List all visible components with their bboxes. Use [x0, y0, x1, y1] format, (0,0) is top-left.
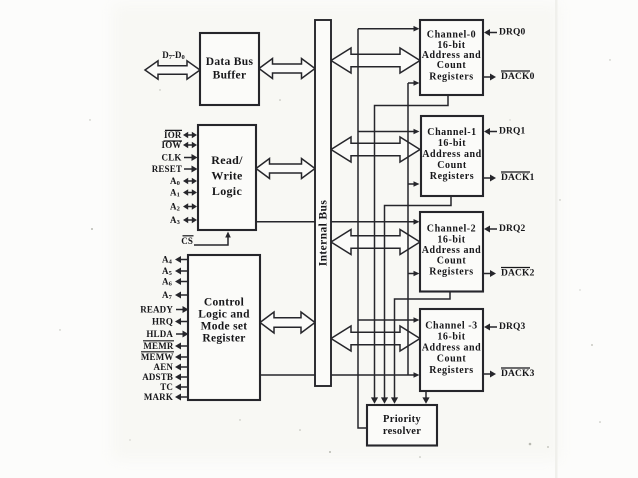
svg-text:DRQ1: DRQ1 [499, 127, 526, 137]
svg-text:resolver: resolver [383, 426, 421, 437]
block: Channel-1 registers [421, 116, 483, 196]
svg-text:Data Bus: Data Bus [206, 56, 254, 68]
svg-text:CS: CS [181, 236, 193, 246]
pin arrow READY [176, 309, 186, 311]
svg-text:MEMR: MEMR [143, 341, 173, 351]
wire: Channel-1 bottom to Priority resolver [385, 196, 452, 399]
pin arrow HLDA [176, 333, 186, 335]
pin arrow A0 [186, 180, 194, 182]
svg-text:Channel-1: Channel-1 [427, 127, 476, 138]
svg-text:DRQ2: DRQ2 [499, 224, 526, 234]
svg-text:DACK0: DACK0 [501, 72, 535, 82]
wire: CS to Read/Write Logic [194, 236, 228, 245]
svg-text:IOR: IOR [164, 130, 182, 140]
svg-text:RESET: RESET [152, 164, 182, 174]
svg-text:CLK: CLK [162, 153, 182, 163]
bus arrow: Data Bus Buffer to Internal Bus [259, 59, 315, 79]
wire: branch to Channel-1 bottom input [408, 183, 416, 185]
pin DRQ3 [487, 326, 497, 328]
wire: Channel-0 bottom to Priority resolver [375, 95, 449, 399]
pin arrow CLK [184, 157, 195, 159]
svg-text:DACK3: DACK3 [501, 369, 535, 379]
block: Data Bus Buffer [200, 33, 259, 105]
pin arrow HRQ [178, 321, 188, 323]
pin DACK0 (active low) [484, 76, 493, 78]
svg-text:Count: Count [437, 256, 467, 267]
bus arrow: Internal Bus to Channel-0 [331, 48, 420, 73]
pin arrow A5 [178, 270, 188, 272]
block: Channel-0 registers [420, 20, 483, 95]
svg-text:16-bit: 16-bit [437, 332, 465, 343]
svg-text:Channel -3: Channel -3 [425, 321, 477, 332]
svg-text:Priority: Priority [383, 414, 421, 425]
svg-text:Registers: Registers [429, 72, 473, 83]
pin arrow ADSTB [178, 376, 188, 378]
svg-text:HRQ: HRQ [152, 317, 173, 327]
svg-text:D7-D0: D7-D0 [162, 50, 185, 61]
svg-text:HLDA: HLDA [146, 329, 173, 339]
svg-text:Count: Count [437, 354, 467, 365]
pin DACK1 (active low) [484, 177, 493, 179]
svg-text:READY: READY [140, 305, 173, 315]
wire: Channel-3 bottom to Priority resolver [425, 391, 427, 399]
svg-text:Register: Register [202, 333, 245, 345]
pin arrow IOW [186, 144, 194, 146]
svg-text:MEMW: MEMW [141, 352, 174, 362]
svg-text:DACK2: DACK2 [501, 269, 535, 279]
svg-text:Logic: Logic [212, 184, 243, 198]
bus arrow: Internal Bus to Channel-1 [331, 137, 420, 162]
svg-text:16-bit: 16-bit [437, 235, 465, 246]
pin arrow A7 [178, 294, 188, 296]
svg-text:AEN: AEN [154, 362, 174, 372]
block: Channel-2 registers [420, 212, 483, 292]
pin arrow A1 [186, 192, 194, 194]
svg-text:ADSTB: ADSTB [142, 372, 173, 382]
pin arrow MARK [178, 396, 188, 398]
svg-text:Registers: Registers [429, 267, 473, 278]
wire: branch to Channel-1 top input [358, 131, 416, 133]
svg-text:TC: TC [160, 382, 173, 392]
svg-text:Read/: Read/ [211, 153, 243, 167]
pin DRQ0 [487, 32, 497, 34]
svg-text:Count: Count [437, 160, 467, 171]
svg-text:Internal Bus: Internal Bus [318, 200, 330, 267]
bus arrow: Control Logic to Internal Bus [260, 312, 315, 333]
bus arrow: Internal Bus to Channel-2 [331, 230, 420, 255]
svg-text:Address and: Address and [422, 245, 482, 256]
pin arrow IOR [186, 134, 194, 136]
pin arrow MEMR [178, 345, 188, 347]
svg-text:Registers: Registers [430, 171, 474, 182]
svg-text:Logic and: Logic and [198, 309, 250, 321]
pin DACK2 (active low) [484, 273, 493, 275]
wire: Control Logic to Channel-3 bottom input [260, 374, 416, 376]
block: Priority resolver [367, 405, 437, 446]
wire: branch to Channel-0 top input [358, 28, 416, 30]
pin DRQ1 [487, 131, 497, 133]
wire: branch to Channel-0 bottom input [408, 82, 416, 84]
svg-text:Mode set: Mode set [201, 321, 248, 333]
bus arrow: Internal Bus to Channel-3 [331, 326, 420, 351]
svg-text:DRQ3: DRQ3 [499, 322, 526, 332]
svg-text:Count: Count [437, 60, 467, 71]
svg-text:Address and: Address and [422, 149, 482, 160]
block: Read/Write Logic [198, 125, 256, 230]
pin arrow RESET [184, 168, 195, 170]
svg-text:Channel-2: Channel-2 [427, 224, 476, 235]
pin arrow A2 [186, 206, 194, 208]
svg-text:Registers: Registers [429, 365, 473, 376]
svg-text:Write: Write [211, 169, 243, 183]
pin arrow A6 [178, 281, 188, 283]
svg-text:DACK1: DACK1 [501, 173, 535, 183]
pin arrow MEMW [178, 356, 188, 358]
block: Control Logic and Mode set Register [188, 255, 260, 400]
pin arrow A4 [178, 259, 188, 261]
svg-text:DRQ0: DRQ0 [499, 28, 526, 38]
svg-text:Channel-0: Channel-0 [427, 30, 476, 41]
pin DRQ2 [487, 228, 497, 230]
internal bus bar [315, 20, 331, 386]
svg-text:16-bit: 16-bit [438, 138, 466, 149]
block: Channel-3 registers [420, 309, 483, 391]
svg-text:MARK: MARK [144, 392, 173, 402]
wire: branch to Channel-3 top input [358, 319, 416, 321]
pin DACK3 (active low) [484, 373, 493, 375]
wire: branch to Channel-2 bottom input [408, 273, 416, 275]
pin arrow TC [178, 386, 188, 388]
wire: Read/Write Logic to Channel-2 top input [256, 221, 416, 223]
wire: vertical net from CH0 top input down to Priority resolver left [358, 29, 366, 428]
pin arrow AEN [178, 366, 188, 368]
bus arrow: D7-D0 to Data Bus Buffer [145, 61, 200, 79]
svg-text:Address and: Address and [422, 343, 482, 354]
svg-text:Buffer: Buffer [213, 70, 247, 82]
svg-text:Control: Control [204, 297, 244, 309]
wire: Channel-2 bottom to Priority resolver [395, 292, 451, 400]
bus arrow: Read/Write Logic to Internal Bus [256, 159, 315, 179]
wire: vertical net feeding channel bottom inputs (CH0..CH2) [407, 83, 409, 375]
pin arrow A3 [186, 219, 194, 221]
